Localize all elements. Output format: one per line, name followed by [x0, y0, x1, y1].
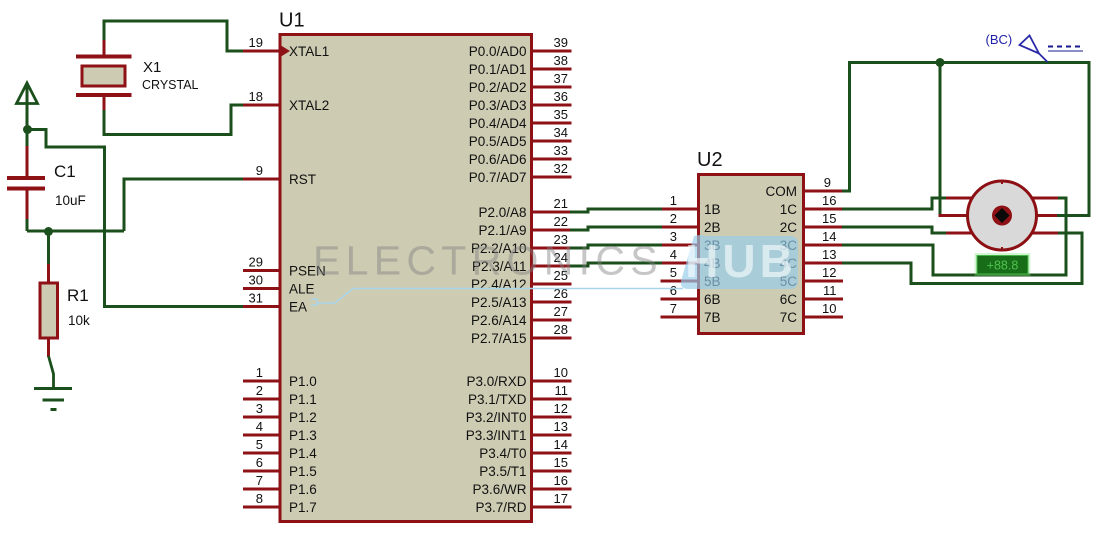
svg-text:32: 32: [554, 161, 568, 176]
U2 pin 16 (1C) stub + number + name: [780, 193, 843, 217]
node VCC junction dot: [23, 125, 32, 134]
wire VCC junction to EA (via x104.5): [27, 130, 243, 307]
U2 pin 9 (COM) stub + number + name: [766, 175, 844, 199]
svg-text:15: 15: [554, 455, 568, 470]
svg-text:35: 35: [554, 107, 568, 122]
U1 pin 39 (P0.0/AD0) stub + number + name: [469, 35, 572, 59]
svg-text:P1.4: P1.4: [289, 446, 317, 461]
svg-text:XTAL1: XTAL1: [289, 44, 329, 59]
node RST junction dot: [44, 227, 53, 236]
svg-text:11: 11: [555, 383, 569, 398]
U1 pin 7 (P1.6) stub + number + name: [243, 473, 317, 497]
svg-text:37: 37: [554, 71, 568, 86]
svg-text:9: 9: [256, 163, 263, 178]
svg-text:14: 14: [554, 437, 568, 452]
U1 pin 19 (XTAL1) stub + number + name: [243, 35, 329, 59]
svg-text:P0.3/AD3: P0.3/AD3: [469, 98, 527, 113]
svg-text:2B: 2B: [704, 220, 721, 235]
wire U2 2C (pin15) to motor lower-left terminal: [842, 227, 948, 233]
U1 pin 28 (P2.7/A15) stub + number + name: [471, 322, 572, 346]
svg-text:1: 1: [670, 193, 677, 208]
U1 pin 34 (P0.5/AD5) stub + number + name: [469, 125, 572, 149]
U1 pin 1 (P1.0) stub + number + name: [243, 365, 317, 389]
svg-text:1C: 1C: [780, 202, 798, 217]
svg-text:P3.6/WR: P3.6/WR: [472, 482, 526, 497]
capacitor C1: [7, 129, 86, 220]
svg-text:HUB: HUB: [685, 235, 797, 287]
U2 pin 1 (1B) stub + number + name: [661, 193, 721, 217]
svg-text:2: 2: [670, 211, 677, 226]
svg-text:P1.7: P1.7: [289, 500, 317, 515]
svg-text:17: 17: [554, 491, 568, 506]
U1 pin 22 (P2.1/A9) stub + number + name: [478, 214, 571, 238]
wire U2 COM pin 9 up and across top rail to right column: [842, 63, 1089, 216]
wire U2 3C (pin14) under motor to upper-right terminal: [842, 198, 1066, 275]
svg-text:P3.2/INT0: P3.2/INT0: [466, 410, 527, 425]
svg-text:C1: C1: [54, 162, 76, 181]
svg-text:P2.6/A14: P2.6/A14: [471, 313, 527, 328]
svg-text:COM: COM: [766, 184, 798, 199]
wire crystal top to XTAL1: [104, 21, 243, 56]
svg-text:7: 7: [670, 301, 677, 316]
U2 pin 13 (4C) stub + number + name: [780, 247, 843, 271]
U1 pin 12 (P3.2/INT0) stub + number + name: [466, 401, 572, 425]
U1 pin 14 (P3.4/T0) stub + number + name: [479, 437, 571, 461]
svg-text:4: 4: [256, 419, 263, 434]
svg-text:5: 5: [256, 437, 263, 452]
svg-text:3: 3: [670, 229, 677, 244]
wire U1 P2.2/A10 to U2 3B: [570, 245, 662, 248]
display +88.8 readout: [976, 254, 1030, 275]
svg-text:39: 39: [554, 35, 568, 50]
svg-text:X1: X1: [143, 59, 161, 76]
svg-text:7C: 7C: [780, 310, 798, 325]
svg-text:10uF: 10uF: [55, 193, 86, 208]
svg-text:CRYSTAL: CRYSTAL: [142, 78, 199, 92]
U1 pin 10 (P3.0/RXD) stub + number + name: [466, 365, 571, 389]
svg-text:P3.5/T1: P3.5/T1: [479, 464, 526, 479]
svg-text:1B: 1B: [704, 202, 721, 217]
U1 pin 36 (P0.3/AD3) stub + number + name: [469, 89, 572, 113]
wire U1 P2.0/A8 to U2 1B: [570, 209, 662, 212]
svg-text:12: 12: [554, 401, 568, 416]
wire top rail down to motor left center tap: [939, 63, 942, 216]
svg-text:5: 5: [670, 265, 677, 280]
U1 pin 18 (XTAL2) stub + number + name: [243, 89, 329, 113]
wire C1 bottom to RST node rail: [27, 219, 124, 231]
wire U2 4C (pin13) under motor to lower-right terminal: [842, 233, 1082, 284]
node top rail junction dot: [936, 58, 945, 67]
svg-text:2: 2: [256, 383, 263, 398]
svg-text:4: 4: [670, 247, 677, 262]
U1 pin 33 (P0.6/AD6) stub + number + name: [469, 143, 572, 167]
U2 pin 3 (3B) stub + number + name: [661, 229, 721, 253]
svg-text:36: 36: [554, 89, 568, 104]
U1 pin 4 (P1.3) stub + number + name: [243, 419, 317, 443]
U2 pin 4 (4B) stub + number + name: [661, 247, 721, 271]
svg-text:P1.0: P1.0: [289, 374, 317, 389]
svg-text:30: 30: [249, 273, 263, 288]
watermark electronics hub logo line: [311, 289, 683, 306]
svg-text:6C: 6C: [780, 292, 798, 307]
U1 pin 8 (P1.7) stub + number + name: [243, 491, 317, 515]
svg-text:ALE: ALE: [289, 281, 315, 296]
U1 pin 6 (P1.5) stub + number + name: [243, 455, 317, 479]
U1 pin 26 (P2.5/A13) stub + number + name: [471, 286, 572, 310]
svg-text:33: 33: [554, 143, 568, 158]
svg-text:7B: 7B: [704, 310, 721, 325]
wire crystal bottom to XTAL2: [104, 95, 243, 135]
U1 pin 37 (P0.2/AD2) stub + number + name: [469, 71, 572, 95]
svg-text:P1.3: P1.3: [289, 428, 317, 443]
U1 pin 31 (EA) stub + number + name: [243, 291, 307, 315]
U1 pin 3 (P1.2) stub + number + name: [243, 401, 317, 425]
svg-text:P0.1/AD1: P0.1/AD1: [469, 62, 527, 77]
svg-text:29: 29: [249, 255, 263, 270]
U1 pin 16 (P3.6/WR) stub + number + name: [472, 473, 571, 497]
svg-text:U1: U1: [279, 10, 305, 32]
U2 pin 10 (7C) stub + number + name: [780, 301, 843, 325]
svg-text:15: 15: [822, 211, 836, 226]
U1 pin 23 (P2.2/A10) stub + number + name: [471, 232, 572, 256]
svg-text:6B: 6B: [704, 292, 721, 307]
watermark HUB box: [681, 235, 798, 289]
svg-text:P3.1/TXD: P3.1/TXD: [468, 392, 527, 407]
IC U1 8051 microcontroller: [279, 10, 532, 522]
wire U1 P2.1/A9 to U2 2B: [570, 227, 662, 230]
probe (BC) voltage probe: [986, 32, 1084, 62]
svg-text:1: 1: [256, 365, 263, 380]
ground: [34, 389, 72, 410]
svg-text:19: 19: [249, 35, 263, 50]
U1 pin 32 (P0.7/AD7) stub + number + name: [469, 161, 572, 185]
svg-text:10k: 10k: [68, 313, 90, 328]
power symbol VCC arrow: [17, 83, 38, 129]
svg-text:R1: R1: [67, 286, 89, 305]
svg-text:XTAL2: XTAL2: [289, 98, 329, 113]
svg-text:P2.5/A13: P2.5/A13: [471, 295, 527, 310]
U1 pin 30 (ALE) stub + number + name: [243, 273, 315, 297]
svg-text:P2.1/A9: P2.1/A9: [478, 223, 526, 238]
svg-text:7: 7: [256, 473, 263, 488]
U2 pin 7 (7B) stub + number + name: [661, 301, 721, 325]
U2 pin 6 (6B) stub + number + name: [661, 283, 721, 307]
svg-text:31: 31: [249, 291, 263, 306]
U2 pin 15 (2C) stub + number + name: [780, 211, 843, 235]
svg-text:+88.8: +88.8: [987, 259, 1019, 273]
wire U1 P2.3/A11 to U2 4B: [570, 263, 662, 266]
U1 pin 11 (P3.1/TXD) stub + number + name: [468, 383, 572, 407]
svg-text:P2.0/A8: P2.0/A8: [478, 205, 526, 220]
svg-text:21: 21: [554, 196, 568, 211]
svg-text:16: 16: [554, 473, 568, 488]
svg-text:P1.2: P1.2: [289, 410, 317, 425]
svg-text:P0.5/AD5: P0.5/AD5: [469, 134, 527, 149]
U1 pin 24 (P2.3/A11) stub + number + name: [472, 250, 572, 274]
svg-text:28: 28: [554, 322, 568, 337]
svg-text:10: 10: [554, 365, 568, 380]
U1 pin 38 (P0.1/AD1) stub + number + name: [469, 53, 572, 77]
svg-text:18: 18: [249, 89, 263, 104]
U1 pin 25 (P2.4/A12) stub + number + name: [471, 268, 572, 292]
svg-text:22: 22: [554, 214, 568, 229]
U2 pin 14 (3C) stub + number + name: [780, 229, 843, 253]
svg-text:P2.7/A15: P2.7/A15: [471, 331, 527, 346]
U1 pin 17 (P3.7/RD) stub + number + name: [475, 491, 571, 515]
U1 pin 13 (P3.3/INT1) stub + number + name: [466, 419, 572, 443]
svg-text:(BC): (BC): [986, 32, 1013, 47]
svg-text:16: 16: [822, 193, 836, 208]
wire R1 to ground: [49, 356, 54, 388]
crystal X1: [76, 57, 199, 96]
svg-text:3: 3: [256, 401, 263, 416]
U1 pin 35 (P0.4/AD4) stub + number + name: [469, 107, 572, 131]
wire RST node up to RST pin: [124, 179, 243, 231]
U1 pin 21 (P2.0/A8) stub + number + name: [478, 196, 571, 220]
svg-text:P3.7/RD: P3.7/RD: [475, 500, 526, 515]
svg-text:2C: 2C: [780, 220, 798, 235]
svg-text:P1.6: P1.6: [289, 482, 317, 497]
svg-text:EA: EA: [289, 299, 307, 314]
U1 pin 2 (P1.1) stub + number + name: [243, 383, 317, 407]
wire U2 1C (pin16) to motor upper-left terminal: [842, 198, 948, 209]
svg-text:P0.0/AD0: P0.0/AD0: [469, 44, 527, 59]
U1 pin 15 (P3.5/T1) stub + number + name: [479, 455, 571, 479]
svg-text:27: 27: [554, 304, 568, 319]
svg-text:13: 13: [554, 419, 568, 434]
svg-text:9: 9: [824, 175, 831, 190]
svg-text:13: 13: [822, 247, 836, 262]
svg-text:P1.1: P1.1: [289, 392, 317, 407]
U1 pin 9 (RST) stub + number + name: [243, 163, 316, 187]
svg-text:P3.0/RXD: P3.0/RXD: [466, 374, 526, 389]
U1 pin 27 (P2.6/A14) stub + number + name: [471, 304, 572, 328]
U2 pin 2 (2B) stub + number + name: [661, 211, 721, 235]
motor stepper body: [968, 181, 1037, 251]
U1 pin 29 (PSEN) stub + number + name: [243, 255, 326, 279]
svg-text:P1.5: P1.5: [289, 464, 317, 479]
motor stepper terminals (red stubs): [939, 198, 1059, 233]
svg-text:10: 10: [822, 301, 836, 316]
svg-text:P0.4/AD4: P0.4/AD4: [469, 116, 527, 131]
svg-text:P3.4/T0: P3.4/T0: [479, 446, 526, 461]
svg-text:U2: U2: [697, 149, 723, 171]
U2 pin 12 (5C) stub + number + name: [780, 265, 843, 289]
svg-text:6: 6: [670, 283, 677, 298]
svg-text:14: 14: [822, 229, 836, 244]
IC U2 ULN2003 driver: [697, 149, 804, 334]
svg-text:38: 38: [554, 53, 568, 68]
svg-text:ELECTRONICS: ELECTRONICS: [313, 238, 663, 284]
svg-text:11: 11: [823, 283, 837, 298]
U1 pin 5 (P1.4) stub + number + name: [243, 437, 317, 461]
svg-text:12: 12: [822, 265, 836, 280]
resistor R1: [40, 231, 90, 357]
svg-text:P0.7/AD7: P0.7/AD7: [469, 170, 527, 185]
svg-text:P3.3/INT1: P3.3/INT1: [466, 428, 527, 443]
svg-text:RST: RST: [289, 172, 316, 187]
svg-text:P0.2/AD2: P0.2/AD2: [469, 80, 527, 95]
svg-text:6: 6: [256, 455, 263, 470]
U2 pin 5 (5B) stub + number + name: [661, 265, 721, 289]
svg-text:P0.6/AD6: P0.6/AD6: [469, 152, 527, 167]
svg-text:8: 8: [256, 491, 263, 506]
U2 pin 11 (6C) stub + number + name: [780, 283, 843, 307]
svg-text:34: 34: [554, 125, 568, 140]
